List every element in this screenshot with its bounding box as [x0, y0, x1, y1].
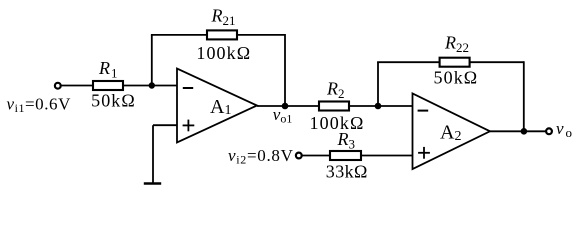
- svg-text:100kΩ: 100kΩ: [196, 43, 251, 63]
- svg-text:50kΩ: 50kΩ: [91, 91, 136, 111]
- wire R21 to right corner: [237, 34, 285, 36]
- wire R22 to right corner: [470, 61, 524, 63]
- resistor R21 body: [207, 30, 237, 39]
- terminal vi1: [55, 83, 61, 89]
- wire vi2 terminal to R3: [302, 155, 330, 157]
- wire node up to R22 feedback: [377, 62, 379, 106]
- resistor R1 body: [93, 81, 123, 90]
- wire A1 noninverting input: [153, 124, 177, 126]
- op-amp A2 triangle: [413, 94, 491, 170]
- A1 minus sign: [183, 87, 193, 89]
- wire R1 to A1 inverting input: [123, 85, 177, 87]
- wire feedback down to output node: [523, 61, 525, 131]
- resistor R3 body: [330, 151, 361, 160]
- wire R2 to A2 inverting input: [349, 105, 413, 107]
- resistor R22 body: [440, 58, 470, 67]
- A2 minus sign: [418, 110, 429, 112]
- wire feedback down to node vo1: [284, 34, 286, 106]
- wire A1 output to R2: [257, 105, 319, 107]
- wire R3 to A2 noninverting input: [361, 155, 413, 157]
- svg-text:50kΩ: 50kΩ: [434, 68, 479, 88]
- wire down to ground: [152, 125, 154, 183]
- node dot at A2 output: [521, 128, 528, 135]
- ground bar: [144, 182, 161, 185]
- node junction at R1 output: [149, 82, 155, 88]
- A2 plus sign: [418, 152, 430, 154]
- A1 plus sign: [183, 124, 195, 126]
- resistor R2 body: [319, 102, 349, 111]
- op-amp A1 triangle: [177, 69, 257, 143]
- wire feedback top to R22: [377, 61, 440, 63]
- terminal vi2: [296, 153, 302, 159]
- wire vi1 terminal to R1: [61, 85, 93, 87]
- node dot at A2 inverting input: [375, 103, 382, 110]
- wire node up to feedback: [151, 35, 153, 86]
- wire feedback top left to R21: [151, 34, 207, 36]
- svg-text:33kΩ: 33kΩ: [326, 162, 368, 182]
- wire A2 output: [490, 130, 546, 132]
- node vo1 dot: [282, 103, 289, 110]
- terminal vo: [546, 128, 552, 134]
